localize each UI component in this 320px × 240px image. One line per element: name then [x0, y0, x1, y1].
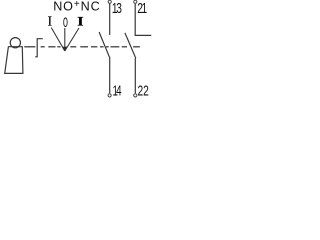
NC contact moving arm 21-22 — [125, 33, 136, 58]
wire: bottom lead of contact 21-22 — [134, 58, 136, 93]
NO contact moving arm 13-14 — [99, 32, 109, 57]
svg-text:13: 13 — [112, 0, 122, 16]
NC contact seat bar — [135, 34, 152, 36]
svg-text:0: 0 — [63, 14, 68, 31]
plunger symbol — [35, 39, 43, 57]
svg-text:22: 22 — [137, 83, 148, 99]
terminal circle 21 — [134, 0, 137, 3]
terminal circle 14 — [108, 94, 111, 97]
terminal circle 22 — [134, 94, 137, 97]
position indicator fan: right ray (position II) — [65, 28, 79, 51]
terminal circle 13 — [108, 0, 111, 3]
actuator body (trapezoid) — [5, 47, 23, 74]
actuator roller (circle) — [10, 38, 20, 48]
position indicator fan: middle ray (position 0) — [64, 28, 66, 51]
background — [0, 0, 152, 100]
svg-text:21: 21 — [137, 0, 147, 16]
wire: bottom lead of contact 13-14 — [109, 57, 111, 94]
svg-text:I: I — [77, 15, 84, 29]
position indicator fan: left ray (position I) — [51, 28, 65, 51]
svg-text:I: I — [48, 13, 52, 28]
wire: top lead of contact 21-22 — [134, 4, 136, 36]
mechanical linkage dashed line — [24, 46, 140, 48]
wire: top lead of contact 13-14 — [109, 4, 111, 35]
arrowhead on middle ray — [62, 47, 67, 52]
